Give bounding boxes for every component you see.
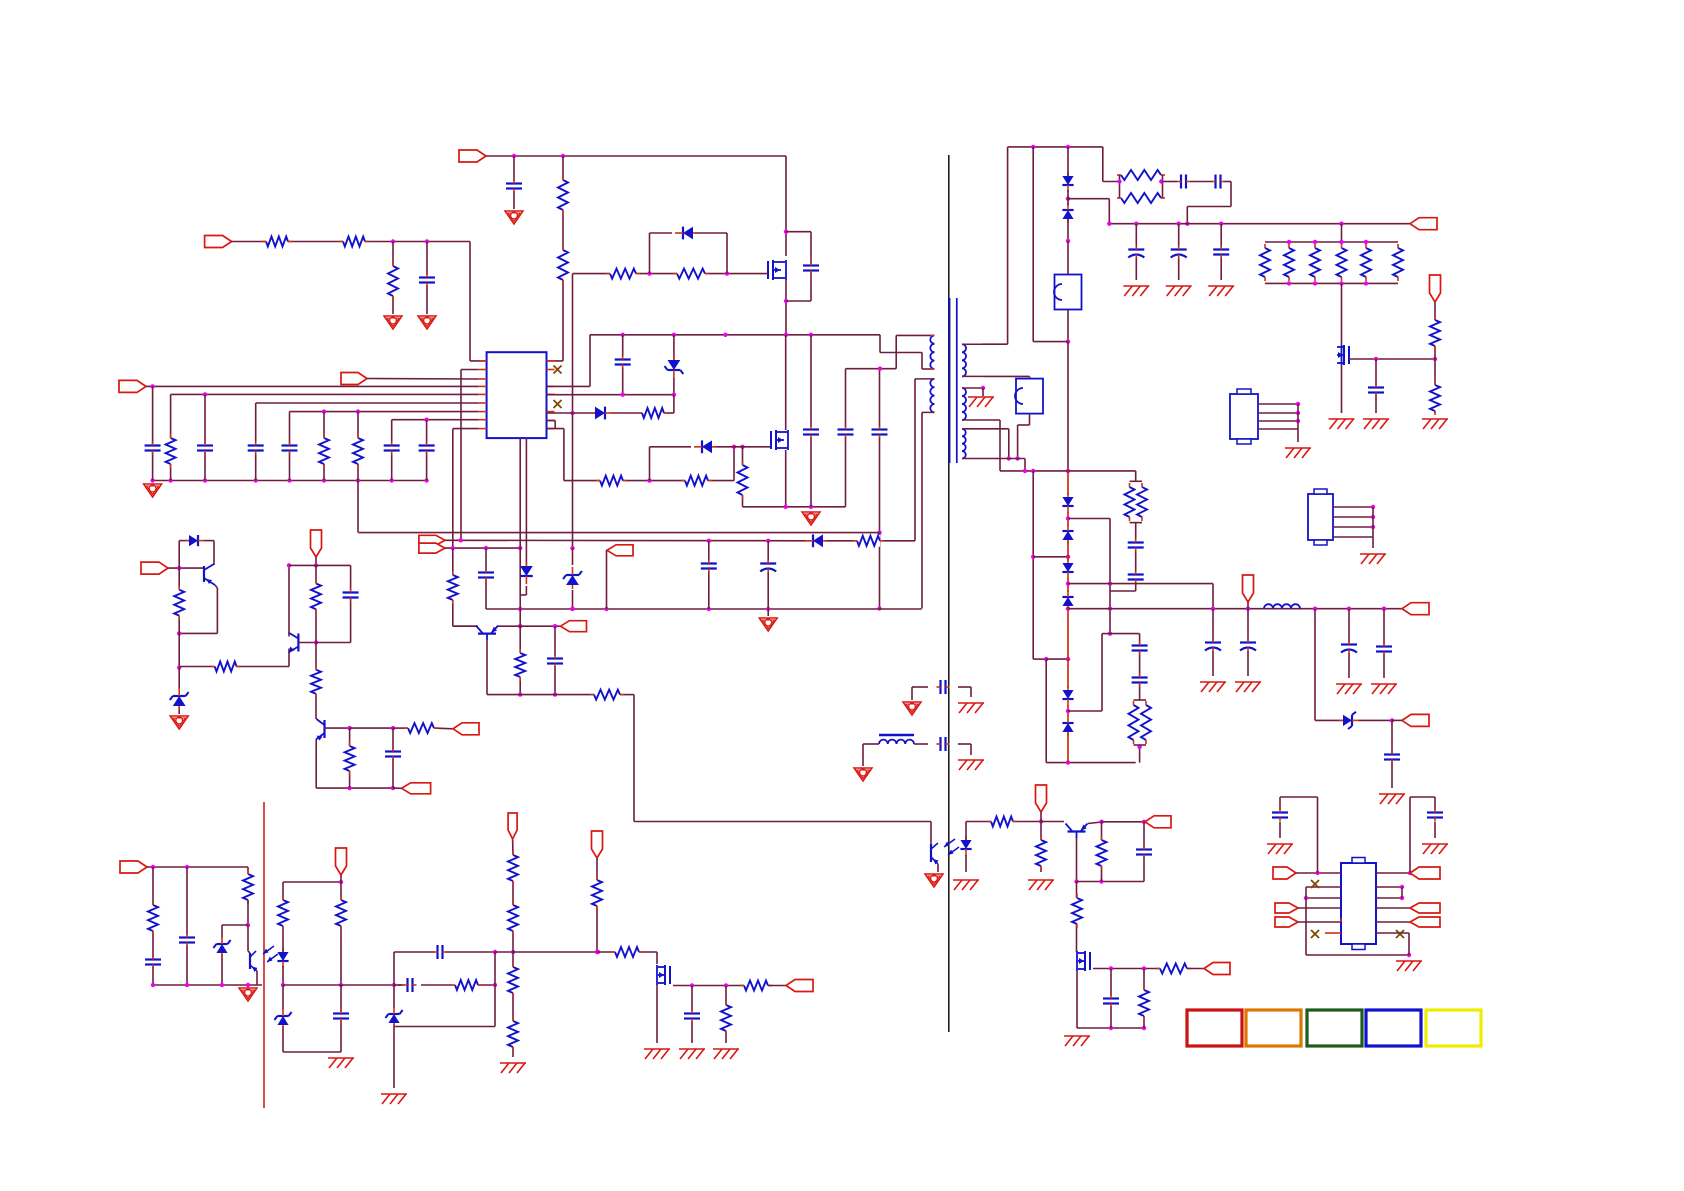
ground G24 xyxy=(1285,448,1311,458)
wire c39 chain xyxy=(186,867,188,985)
wire r57 chain xyxy=(725,986,727,1044)
node legend box 3 xyxy=(1307,1010,1362,1046)
wire primary bus xyxy=(590,333,880,337)
connector P17 xyxy=(1243,575,1254,602)
capacitor C17 xyxy=(547,655,563,668)
capacitor C1 xyxy=(419,274,435,287)
wire left bypass xyxy=(1031,471,1136,765)
wire q6 wiring xyxy=(316,726,453,790)
wire Q1 source xyxy=(784,280,788,335)
ground G32 xyxy=(328,1058,354,1068)
wire c19 chain xyxy=(1143,822,1145,882)
diode D10 xyxy=(1062,493,1073,513)
capacitor C2 xyxy=(506,180,522,193)
wire bus line369 xyxy=(461,370,479,541)
wire q8 source rail xyxy=(1077,971,1146,1030)
wire aux W2 sense xyxy=(915,379,922,609)
ground G35 xyxy=(644,1049,670,1059)
wire net VCC top xyxy=(486,154,786,361)
resistor R18 xyxy=(590,689,624,701)
capacitor C28 xyxy=(1368,384,1384,397)
wire outcap3 xyxy=(1348,609,1350,678)
resistor R10 xyxy=(673,268,709,280)
transformer T1 primary winding W1 xyxy=(930,335,934,369)
capacitor C13 xyxy=(872,426,888,439)
wire ic bottom pin2 xyxy=(520,438,526,595)
connector P8 xyxy=(561,621,587,632)
connector P10 xyxy=(311,530,322,557)
wire opto2 rail xyxy=(151,971,262,987)
transistor Q6 xyxy=(316,719,325,741)
resistor R51 xyxy=(507,901,519,935)
diode D11 xyxy=(1062,524,1073,544)
wire gate drive q10 xyxy=(595,858,657,964)
transformer T1 core xyxy=(950,298,957,463)
capacitor C4 xyxy=(197,442,213,455)
snubber R41 R42 xyxy=(1124,481,1149,522)
resistor R49 xyxy=(451,979,482,991)
ground G19 xyxy=(1166,286,1192,296)
wire top secondary bus xyxy=(1107,222,1410,226)
connector P24 xyxy=(1273,867,1296,879)
connector P12 xyxy=(1036,785,1047,812)
resistor R13 xyxy=(681,475,712,487)
connector P23 xyxy=(786,980,813,992)
wire p7 drop xyxy=(606,550,608,609)
connector P26 xyxy=(1275,917,1298,927)
wire c14 branch xyxy=(708,541,710,609)
wire c15 branch xyxy=(767,541,769,616)
wire net VIN row xyxy=(232,239,487,361)
wire bank rail xyxy=(150,478,428,482)
connector P11b xyxy=(402,783,431,794)
capacitor C42 xyxy=(404,978,417,992)
resistor R6 xyxy=(165,434,177,468)
wire sa bottom to fuse2 xyxy=(983,376,1030,378)
capacitor C15 (polarized) xyxy=(760,560,776,573)
wire vref node xyxy=(289,557,351,643)
wire j1 pins xyxy=(1258,402,1300,442)
wire r50 ladder xyxy=(512,839,514,1057)
ground G4 xyxy=(144,484,162,497)
resistor R19 xyxy=(173,586,185,620)
resistor R37 xyxy=(1360,244,1372,281)
transformer T1 secondary winding SA xyxy=(962,344,983,376)
resistor R8 xyxy=(352,434,364,468)
wire snub caps xyxy=(1117,179,1231,226)
wire ycap2 xyxy=(863,744,971,766)
wire bus line403 xyxy=(256,402,479,404)
fuse F1 xyxy=(1054,275,1082,310)
transistor Q8 (MOSFET) xyxy=(1077,951,1090,971)
wire bank drop c7 xyxy=(391,420,393,481)
wire sb feed xyxy=(983,420,1000,471)
diode D14 xyxy=(1062,686,1073,706)
wire C1 branch xyxy=(426,242,428,315)
wire r45 chain xyxy=(152,867,154,985)
diode D9 xyxy=(1062,203,1073,223)
resistor R26 xyxy=(1035,836,1047,870)
ground G28 xyxy=(1336,684,1362,694)
wire bus line419 xyxy=(392,418,479,422)
resistor R56 xyxy=(740,980,772,992)
wire d8d9 mid xyxy=(1066,197,1110,224)
wire pin394 net xyxy=(547,393,677,397)
wire rect col mid xyxy=(1033,147,1070,473)
wire bus line379 xyxy=(367,378,479,381)
connector P27 xyxy=(1410,867,1440,879)
capacitor C18 xyxy=(343,589,359,602)
wire U1 pin stubs xyxy=(479,361,555,429)
ground G7 xyxy=(759,618,777,631)
inductor L2 xyxy=(1264,604,1300,608)
resistor R20 xyxy=(211,661,241,673)
ground G37 xyxy=(713,1049,739,1059)
wire comp net xyxy=(394,950,600,1088)
capacitor C36 xyxy=(1132,642,1148,655)
resistor R24 xyxy=(344,742,356,775)
capacitor C41 xyxy=(434,945,447,959)
wire bank drop c3 xyxy=(152,386,154,480)
wire pair2 out xyxy=(1068,584,1213,609)
wire ycap1 xyxy=(912,687,971,700)
wire z2 branch xyxy=(673,335,675,395)
capacitor C27 xyxy=(1213,246,1229,259)
wire fb bottom rails xyxy=(283,983,396,1052)
wire q7 gate chain xyxy=(1076,882,1078,953)
diode D12 xyxy=(1062,559,1073,579)
capacitor C8 xyxy=(419,442,435,455)
connector P11 xyxy=(453,723,479,735)
capacitor C10 xyxy=(615,356,631,369)
capacitor C7 xyxy=(384,442,400,455)
connector P21 xyxy=(336,848,347,875)
wire Q2 source rail xyxy=(743,447,846,509)
wire sec top line xyxy=(982,145,1120,345)
ground G17 xyxy=(958,760,984,770)
connector P22 xyxy=(592,831,603,858)
capacitor C29 xyxy=(1128,539,1144,552)
wire ea lower xyxy=(177,633,289,669)
node X no-connect 1 xyxy=(554,366,562,374)
connector P6 xyxy=(419,543,445,553)
capacitor C26 xyxy=(1171,246,1187,259)
resistor R36 xyxy=(1336,244,1348,281)
resistor R54 xyxy=(591,876,603,910)
ground G13 xyxy=(1064,1036,1090,1046)
transistor Q1 xyxy=(768,260,786,280)
ground G11 xyxy=(953,880,979,890)
wire bank drop r7 xyxy=(323,412,325,481)
node legend box 2 xyxy=(1246,1010,1301,1046)
connector P18 xyxy=(1402,603,1429,615)
wire bank drop c8 xyxy=(426,420,428,481)
capacitor C21 (Y-cap) xyxy=(937,680,950,694)
capacitor C30 xyxy=(1128,571,1144,584)
wire pin413 net xyxy=(547,395,674,413)
ground G2 xyxy=(418,316,436,329)
resistor R17 xyxy=(514,649,526,681)
connector P29 xyxy=(1410,917,1440,927)
diode D16 opto LED xyxy=(277,948,288,968)
wire pin420 jog xyxy=(547,421,564,481)
transistor Q2 xyxy=(771,430,788,450)
wire q4 emitter xyxy=(177,585,217,636)
wire q3 emitter line xyxy=(520,624,560,628)
capacitor C38 xyxy=(145,956,161,969)
zener diode Z1 xyxy=(563,567,582,589)
resistor R14 xyxy=(737,461,749,499)
wire q3 wiring xyxy=(453,626,520,694)
zener diode Z5 xyxy=(213,937,230,957)
wire r21 chain xyxy=(315,565,317,642)
capacitor C33 (pol) xyxy=(1341,641,1357,654)
wire Q1 drain xyxy=(784,156,788,256)
wire bank drop r6 xyxy=(170,394,172,480)
connector P22b xyxy=(508,813,517,839)
wire Q1 gate net xyxy=(573,233,769,276)
wire p26 stub xyxy=(1298,918,1341,922)
ground G5 xyxy=(802,512,820,525)
capacitor C9 xyxy=(803,262,819,275)
resistor R38 xyxy=(1392,244,1404,281)
wire line C xyxy=(486,607,922,611)
ground G15 xyxy=(958,703,984,713)
resistor R28 xyxy=(1071,894,1083,928)
transformer T1 secondary winding SC xyxy=(962,429,966,459)
wire bank drop c6 xyxy=(289,412,291,481)
wire fb c16 chain xyxy=(485,548,487,609)
ground G26 xyxy=(1200,682,1226,692)
op-amp U4 (regulator IC) xyxy=(1341,858,1376,950)
ground G10 xyxy=(925,874,943,887)
wire fb r16 chain xyxy=(453,548,478,626)
diode D6 xyxy=(185,535,205,546)
resistor R27 xyxy=(1096,836,1108,870)
ground G39 xyxy=(1422,844,1448,854)
wire ea diode loop xyxy=(179,541,214,569)
wire opto drive line xyxy=(487,695,931,822)
connector P28 xyxy=(1410,903,1440,913)
wire C27 chain xyxy=(1220,224,1222,280)
node X no-connect 4 xyxy=(1311,930,1319,938)
resistor R55 xyxy=(611,946,643,958)
node X no-connect 3 xyxy=(1311,880,1319,888)
transistor Q3 xyxy=(476,626,498,641)
wire q opto base xyxy=(222,900,250,985)
wire p19 stub xyxy=(1392,719,1402,721)
wire C25 chain xyxy=(1135,224,1137,280)
capacitor C16 xyxy=(478,569,494,582)
diode D4 xyxy=(805,534,827,547)
wire p25 stub xyxy=(1298,907,1341,909)
wire snub2 caps xyxy=(1068,519,1136,636)
snubber R43 R44 xyxy=(1128,700,1153,745)
resistor R45 xyxy=(147,901,159,935)
resistor R4 xyxy=(557,176,569,214)
zener diode Z7 xyxy=(385,1007,402,1027)
wire u4 right frame xyxy=(1376,797,1435,875)
fuse F2 xyxy=(1015,379,1043,414)
connector P14 xyxy=(1204,963,1230,975)
wire gate drive vert xyxy=(570,274,574,611)
capacitor C18b xyxy=(385,748,401,761)
wire outcap4 xyxy=(1383,609,1385,678)
capacitor C22 (Y-cap) xyxy=(937,737,950,751)
resistor R21 xyxy=(310,580,322,614)
capacitor C6 xyxy=(282,442,298,455)
wire output rail xyxy=(1068,607,1402,611)
node legend box 5 xyxy=(1426,1010,1481,1046)
resistor R9 xyxy=(606,268,640,280)
wire Q1 snubber xyxy=(786,232,811,301)
wire rect col top xyxy=(1066,147,1070,275)
ground G3 xyxy=(505,211,523,224)
resistor R40 xyxy=(1429,381,1441,415)
wire q7 nets xyxy=(1041,820,1146,884)
zener diode Z6 xyxy=(274,1009,291,1029)
capacitor C31 (pol) xyxy=(1205,639,1221,652)
connector P9 xyxy=(141,562,168,574)
resistor R35 xyxy=(1309,244,1321,281)
resistor R29 xyxy=(1156,963,1191,975)
capacitor C19 xyxy=(1136,846,1152,859)
connector J2 xyxy=(1308,489,1333,545)
ground G34 xyxy=(500,1063,526,1073)
transistor Q9 (MOSFET) xyxy=(1337,345,1349,365)
connector P1 xyxy=(205,236,232,248)
wire p23 stub xyxy=(768,985,786,987)
wire C26 chain xyxy=(1178,224,1180,280)
resistor R57 xyxy=(720,1001,732,1035)
wire H1 line xyxy=(1000,469,1136,482)
resistor R48 xyxy=(335,896,347,930)
node X no-connect 5 xyxy=(1396,930,1404,938)
capacitor C35 xyxy=(1384,751,1400,764)
resistor R33 xyxy=(1259,244,1271,281)
connector P15 xyxy=(1410,218,1437,230)
inductor L1 xyxy=(879,735,914,744)
capacitor C40 xyxy=(333,1010,349,1023)
wire c17 branch xyxy=(553,626,557,697)
wire q10 out xyxy=(657,983,744,1043)
resistor R16 xyxy=(447,571,459,604)
ground G25 xyxy=(1360,554,1386,564)
wire p17 stem xyxy=(1247,602,1249,609)
wire opto1 emitter xyxy=(931,822,938,873)
wire bulk caps xyxy=(811,335,882,611)
wire line flag2 xyxy=(445,546,523,550)
diode D5 xyxy=(520,562,533,584)
ground G6 xyxy=(968,397,994,407)
transistor U2 opto-transistor xyxy=(931,839,959,865)
capacitor C24 xyxy=(1212,175,1225,189)
wire c18b chain xyxy=(392,728,394,788)
op-amp U1 (PWM controller) xyxy=(487,352,547,438)
wire opto1 bias xyxy=(966,819,1043,823)
ground G33 xyxy=(381,1094,407,1104)
transistor Q5 xyxy=(288,633,298,653)
wire u4 right pins xyxy=(1376,885,1410,955)
connector P19 xyxy=(1402,714,1429,726)
wire r26 chain xyxy=(1040,822,1042,873)
capacitor C37 xyxy=(1132,674,1148,687)
wire r27 chain xyxy=(1101,822,1103,882)
wire fuse2 out xyxy=(1015,414,1029,461)
ground G14 xyxy=(903,702,921,715)
connector P25 xyxy=(1275,903,1298,913)
diode D1 xyxy=(675,227,697,240)
wire bus line428 xyxy=(453,429,479,548)
capacitor C34 xyxy=(1376,643,1392,656)
wire pair3 out xyxy=(1068,634,1142,763)
ground G31 xyxy=(239,988,257,1001)
wire p16 chain xyxy=(1434,302,1436,413)
capacitor C20 xyxy=(1103,995,1119,1008)
diode D2 xyxy=(591,407,613,420)
capacitor C45 xyxy=(1427,809,1443,822)
ground G40 xyxy=(1396,961,1422,971)
wire winding1 jogs xyxy=(846,335,935,371)
connector P13 xyxy=(1145,816,1171,828)
capacitor C3 xyxy=(145,442,161,455)
resistor R53 xyxy=(507,1017,519,1051)
connector P5 xyxy=(419,535,445,545)
wire bus line386 xyxy=(146,384,479,388)
resistor R25 xyxy=(987,816,1017,828)
capacitor C25 xyxy=(1128,246,1144,259)
wire bank drop c4 xyxy=(204,394,206,480)
wire pin387 to bus xyxy=(547,335,591,387)
capacitor C14 xyxy=(701,560,717,573)
connector P2 xyxy=(459,150,486,162)
wire r22 chain xyxy=(315,643,317,720)
diode D3 xyxy=(694,440,716,453)
zener diode Z4 xyxy=(1339,712,1359,729)
capacitor C43 xyxy=(684,1010,700,1023)
wire r48 chain xyxy=(339,875,343,987)
wire r19 chain xyxy=(178,568,180,633)
wire j2 pins xyxy=(1333,505,1375,548)
transistor Q10 (MOSFET) xyxy=(657,965,670,985)
connector P16 xyxy=(1430,275,1441,302)
wire bus line394 xyxy=(171,392,479,396)
diode D8 xyxy=(1062,172,1073,192)
wire sc feeds xyxy=(965,429,1025,471)
ground G27 xyxy=(1235,682,1261,692)
resistor R12 xyxy=(596,475,627,487)
snubber R31 R32 xyxy=(1117,169,1165,204)
node isolation barrier (red) xyxy=(263,802,265,1108)
wire c28 chain xyxy=(1375,359,1377,413)
connector J1 xyxy=(1230,389,1258,444)
resistor R22 xyxy=(310,666,322,698)
wire q8 out xyxy=(1090,966,1160,970)
wire led chain xyxy=(281,880,343,987)
ground G23 xyxy=(1422,419,1448,429)
connector P3 xyxy=(119,380,146,392)
zener diode Z3 xyxy=(170,688,189,710)
zener diode Z2 xyxy=(665,356,684,378)
wire bank drop c5 xyxy=(255,403,257,481)
wire rect column xyxy=(1066,471,1070,763)
node legend box 1 xyxy=(1187,1010,1242,1046)
connector P7 xyxy=(607,545,633,556)
wire ic bottom pin1 xyxy=(518,438,522,697)
capacitor C23 xyxy=(1177,175,1190,189)
diode D7 opto LED xyxy=(960,836,971,856)
connector P20 xyxy=(120,861,147,873)
